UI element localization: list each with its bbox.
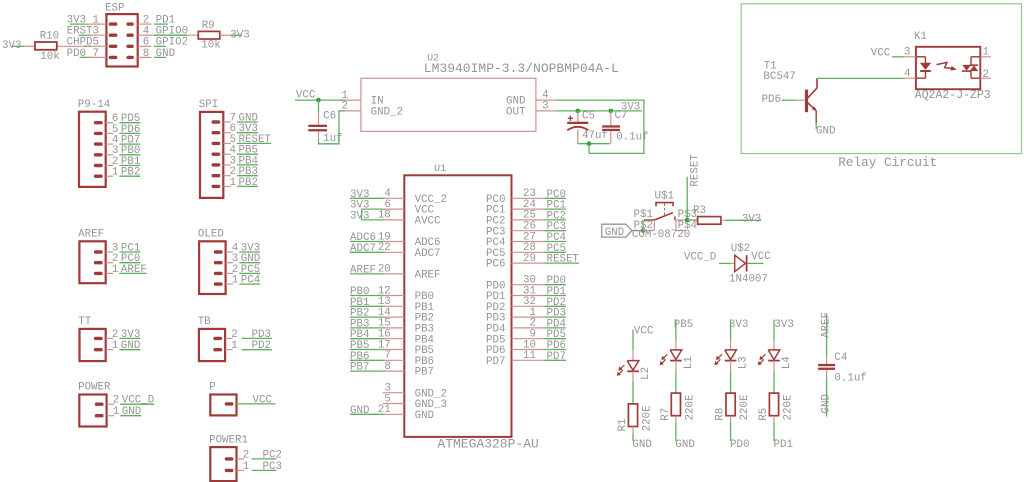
connector TT	[78, 316, 140, 361]
svg-text:3V3: 3V3	[230, 29, 249, 41]
net GND at C4	[820, 378, 832, 417]
svg-text:COM-08720: COM-08720	[632, 229, 690, 241]
svg-text:3V3: 3V3	[742, 214, 761, 226]
U1 pin 8 PB7	[350, 361, 434, 379]
K1 pin 4	[904, 77, 916, 79]
junction dot P$3/R3	[685, 218, 690, 223]
svg-text:POWER1: POWER1	[209, 434, 248, 446]
U1 pin 27 PC4	[486, 231, 566, 249]
U1 pin 7 PB6	[350, 350, 434, 368]
svg-text:2: 2	[112, 329, 118, 341]
svg-text:K1: K1	[914, 31, 927, 43]
K1 pin 1	[980, 56, 991, 58]
svg-text:11: 11	[523, 350, 536, 362]
svg-text:PB5: PB5	[674, 319, 693, 331]
wire anode L4	[773, 340, 775, 350]
svg-text:1: 1	[231, 340, 237, 352]
U1 pin 23 PC0	[486, 188, 566, 206]
wire P$2 to P$1	[642, 220, 644, 231]
U1 pin 26 PC3	[486, 221, 566, 239]
U1 pin 12 PB0	[350, 285, 434, 303]
svg-text:29: 29	[523, 253, 536, 265]
wire GND to switch	[632, 230, 643, 232]
svg-text:U$2: U$2	[731, 243, 750, 255]
relay circuit frame	[741, 4, 1021, 170]
wire L2 to R1	[632, 371, 634, 404]
U1 pin 4 VCC_2	[350, 188, 447, 206]
svg-text:1: 1	[983, 47, 989, 59]
net PB5 at LED column	[674, 319, 693, 340]
connector SPI	[199, 99, 272, 198]
svg-text:RESET: RESET	[690, 154, 702, 187]
wire R5 to PD1	[774, 416, 793, 451]
svg-text:GND: GND	[350, 405, 369, 417]
svg-text:PD7: PD7	[486, 356, 505, 368]
svg-text:3: 3	[904, 47, 910, 59]
microcontroller U1 ATMEGA328P-AU	[404, 164, 539, 451]
U1 pin 13 PB1	[350, 296, 434, 314]
svg-text:22: 22	[378, 242, 391, 254]
U1 pin 21 GND	[350, 404, 434, 422]
wire ESP pin6 GPIO2	[154, 45, 166, 47]
resistor R7	[660, 393, 696, 421]
U1 pin 30 PD0	[486, 275, 566, 293]
junction dot C5 top	[576, 109, 581, 114]
U1 pin 28 PC5	[486, 242, 566, 260]
svg-text:TT: TT	[78, 316, 91, 328]
svg-text:0.1uf: 0.1uf	[834, 372, 866, 384]
svg-text:VCC: VCC	[634, 326, 654, 338]
U1 pin 18 AVCC	[350, 210, 441, 228]
svg-text:1: 1	[113, 406, 119, 418]
svg-text:AREF: AREF	[350, 264, 376, 276]
svg-text:1: 1	[112, 340, 118, 352]
junction dot ground link	[587, 141, 592, 146]
svg-text:47uf: 47uf	[582, 130, 608, 142]
connector OLED	[198, 229, 260, 295]
diode U$2 1N4007	[684, 243, 771, 285]
svg-text:PB7: PB7	[415, 367, 434, 379]
svg-text:GND: GND	[632, 439, 651, 451]
U1 pin 24 PC1	[486, 199, 566, 217]
svg-text:AREF: AREF	[78, 229, 104, 241]
U1 pin 9 PD5	[486, 329, 566, 347]
svg-text:10k: 10k	[201, 39, 220, 51]
resistor R10	[25, 30, 85, 63]
svg-text:0.1uf: 0.1uf	[616, 131, 648, 143]
wire R8 to PD0	[730, 416, 749, 451]
svg-text:L2: L2	[640, 367, 652, 380]
svg-text:R9: R9	[202, 20, 215, 32]
svg-text:ATMEGA328P-AU: ATMEGA328P-AU	[437, 436, 538, 451]
U1 pin 17 PB5	[350, 339, 434, 357]
svg-text:1: 1	[112, 167, 118, 179]
wire T1 collector to K1 pin4	[817, 77, 904, 79]
net GND at T1 emitter	[816, 123, 835, 137]
U1 pin 29 PC6	[486, 253, 579, 271]
wire 3V3 stub ESP pin1	[70, 23, 88, 25]
U1 pin 3 GND_2	[383, 383, 447, 401]
svg-text:3V3: 3V3	[350, 210, 369, 222]
connector POWER1	[209, 434, 282, 481]
svg-text:1: 1	[112, 264, 118, 276]
svg-text:GND_2: GND_2	[371, 107, 403, 119]
svg-text:L3: L3	[738, 356, 750, 369]
ground flag GND	[602, 224, 632, 239]
svg-text:PD2: PD2	[252, 340, 271, 352]
U1 pin 31 PD1	[486, 285, 566, 303]
svg-text:L1: L1	[683, 356, 695, 369]
svg-text:AREF: AREF	[415, 270, 441, 282]
wire L3 to R8	[730, 361, 732, 394]
svg-text:2: 2	[983, 69, 989, 81]
svg-text:ESP: ESP	[105, 3, 124, 15]
svg-text:C7: C7	[615, 110, 628, 122]
svg-text:LM3940IMP-3.3/NOPBMP04A-L: LM3940IMP-3.3/NOPBMP04A-L	[424, 61, 619, 76]
svg-text:R10: R10	[40, 30, 59, 42]
svg-text:R3: R3	[693, 205, 706, 217]
pin 4 GND	[536, 99, 556, 101]
svg-text:RESET: RESET	[547, 254, 580, 266]
wire ESP pin2 PD1	[154, 23, 168, 25]
svg-text:220E: 220E	[739, 395, 751, 421]
U1 pin 5 GND_3	[383, 393, 447, 411]
svg-text:P: P	[209, 382, 215, 394]
voltage regulator U2 LM3940	[339, 54, 619, 132]
svg-text:VCC: VCC	[871, 47, 891, 59]
K1 triac	[970, 57, 972, 65]
U1 pin 11 PD7	[486, 350, 566, 368]
connector TB	[198, 316, 272, 361]
LED L1	[660, 350, 695, 369]
svg-text:PD1: PD1	[774, 439, 793, 451]
transistor T1 BC547	[763, 61, 817, 123]
svg-text:C6: C6	[323, 110, 336, 122]
wire L1 to R7	[675, 361, 677, 394]
svg-text:220E: 220E	[782, 395, 794, 421]
svg-text:VCC: VCC	[751, 251, 771, 263]
wire R10 to ESP pin5	[84, 45, 92, 47]
svg-text:220E: 220E	[641, 405, 653, 431]
svg-text:1: 1	[243, 461, 249, 473]
LED L2	[617, 361, 652, 380]
svg-text:PD6: PD6	[762, 94, 781, 106]
U1 pin 32 PD2	[486, 296, 566, 314]
capacitor C6 1uf	[308, 110, 342, 145]
wire VCC down to C6	[318, 100, 320, 112]
svg-text:GND: GND	[122, 406, 141, 418]
svg-text:AVCC: AVCC	[415, 216, 441, 228]
net VCC at U2 input	[295, 90, 345, 102]
pushbutton U$1 COM-08720	[632, 191, 697, 242]
svg-text:20: 20	[378, 264, 391, 276]
net 3V3 (left of R10)	[2, 40, 25, 52]
wire ESP pin4 GPIO0 to R9	[152, 34, 199, 36]
wire R1 to GND	[632, 427, 651, 451]
svg-text:PD3: PD3	[252, 329, 271, 341]
svg-text:R8: R8	[715, 408, 727, 421]
svg-text:1: 1	[230, 177, 236, 189]
svg-text:PB2: PB2	[121, 167, 140, 179]
svg-text:1N4007: 1N4007	[729, 274, 768, 286]
svg-text:U$1: U$1	[655, 191, 674, 203]
pin 3 OUT	[536, 110, 556, 112]
connector ESP	[67, 3, 188, 67]
wire PD0 stub ESP pin7	[80, 56, 91, 58]
svg-text:3V3: 3V3	[729, 319, 748, 331]
capacitor C7 0.1uf	[602, 110, 648, 144]
svg-text:10k: 10k	[40, 51, 59, 63]
wire anode L1	[675, 340, 677, 350]
svg-text:3V3: 3V3	[121, 329, 140, 341]
resistor R5	[758, 393, 794, 421]
svg-text:R1: R1	[617, 419, 629, 432]
svg-text:C5: C5	[582, 110, 595, 122]
svg-text:L4: L4	[781, 356, 793, 369]
svg-text:GND: GND	[415, 410, 434, 422]
svg-text:1: 1	[232, 275, 238, 287]
svg-text:3V3: 3V3	[774, 319, 793, 331]
K1 pin 2	[980, 77, 991, 79]
svg-text:PC4: PC4	[241, 275, 260, 287]
svg-text:Relay Circuit: Relay Circuit	[838, 155, 937, 170]
wire ESP pin8 GND	[154, 56, 166, 58]
capacitor C4 0.1uf	[818, 352, 867, 384]
net 3V3 at LED column	[729, 319, 748, 340]
svg-text:PC2: PC2	[263, 449, 282, 461]
LED L4	[758, 350, 793, 369]
wire L4 to R5	[773, 361, 775, 394]
svg-text:21: 21	[378, 404, 391, 416]
svg-text:SPI: SPI	[199, 99, 218, 111]
capacitor C5 47uf polarized	[567, 110, 608, 143]
resistor R8	[715, 393, 751, 421]
svg-text:8: 8	[384, 361, 390, 373]
net VCC at K1 pin3	[871, 47, 904, 59]
U1 pin 20 AREF	[350, 264, 441, 282]
U1 pin 1 PD3	[486, 307, 566, 325]
svg-text:2: 2	[243, 449, 249, 461]
connector P9-14	[78, 99, 141, 187]
wire R7 to GND	[675, 416, 694, 451]
relay K1 AQ2A2-J-ZP3	[904, 31, 991, 102]
U1 pin 25 PC2	[486, 210, 566, 228]
wire C6 to GND_2 pin	[319, 111, 346, 144]
U1 pin 2 PD4	[486, 318, 566, 336]
svg-text:2: 2	[113, 395, 119, 407]
junction dot C7 top	[609, 109, 614, 114]
svg-text:VCC: VCC	[296, 90, 316, 102]
net 3V3 at LED column	[774, 319, 794, 340]
svg-text:BC547: BC547	[763, 71, 795, 83]
svg-text:PC3: PC3	[263, 461, 282, 473]
svg-text:C4: C4	[834, 352, 847, 364]
U1 pin 15 PB3	[350, 318, 434, 336]
svg-text:AREF: AREF	[121, 264, 147, 276]
svg-text:R5: R5	[758, 408, 770, 421]
U1 pin 22 ADC7	[350, 242, 441, 260]
K1 opto arrow	[937, 62, 952, 68]
connector POWER	[78, 382, 154, 427]
wire ERST stub ESP pin3	[79, 34, 92, 36]
svg-text:GND: GND	[816, 125, 835, 137]
wire R3 to 3V3	[726, 214, 761, 226]
net PD6 at T1 base	[762, 94, 805, 106]
resistor R1	[617, 404, 653, 432]
svg-text:3: 3	[542, 100, 548, 112]
wire anode L3	[730, 340, 732, 350]
svg-text:GND: GND	[675, 439, 694, 451]
svg-text:PD0: PD0	[730, 439, 749, 451]
pin 2 GND_2	[339, 110, 361, 112]
svg-text:3V3: 3V3	[2, 40, 21, 52]
svg-text:PC6: PC6	[486, 259, 505, 271]
svg-text:AQ2A2-J-ZP3: AQ2A2-J-ZP3	[915, 89, 991, 102]
svg-text:GND: GND	[820, 394, 832, 413]
U1 pin 16 PB4	[350, 329, 434, 347]
svg-text:AREF: AREF	[820, 312, 832, 338]
connector P	[209, 382, 275, 416]
svg-text:TB: TB	[198, 316, 211, 328]
svg-text:PD0 7: PD0 7	[67, 48, 99, 60]
U1 pin 10 PD6	[486, 339, 566, 357]
svg-text:PD7: PD7	[547, 351, 566, 363]
svg-text:18: 18	[378, 210, 391, 222]
U1 pin 6 VCC	[350, 199, 435, 217]
svg-text:4: 4	[904, 68, 910, 80]
U1 pin 19 ADC6	[350, 231, 441, 249]
svg-text:GND: GND	[121, 340, 140, 352]
wire C5/C7 ground link	[578, 143, 610, 145]
svg-text:VCC_D: VCC_D	[122, 395, 154, 407]
U1 pin 14 PB2	[350, 307, 434, 325]
wire 3V3 bus at U1 left	[361, 209, 363, 220]
wire R9 to 3V3	[220, 29, 250, 41]
svg-text:OUT: OUT	[506, 107, 526, 119]
wire ground link down	[588, 144, 590, 154]
wire U2 OUT to 3V3	[556, 102, 642, 114]
svg-text:U1: U1	[434, 164, 446, 175]
wire anode L2	[632, 350, 634, 360]
svg-text:ADC7: ADC7	[350, 243, 376, 255]
LED L3	[714, 350, 749, 369]
svg-text:VCC_D: VCC_D	[684, 252, 716, 264]
svg-text:ADC7: ADC7	[415, 248, 441, 260]
wire U2 GND pin4 loop	[556, 100, 644, 153]
K1 internal LED	[916, 56, 926, 58]
svg-text:220E: 220E	[684, 395, 696, 421]
net RESET vertical wire	[687, 154, 701, 220]
junction dot VCC/C6	[316, 98, 321, 103]
K1 pin 3	[904, 56, 916, 58]
connector AREF	[78, 229, 147, 284]
resistor R9	[198, 20, 220, 52]
svg-text:PB7: PB7	[350, 362, 369, 374]
svg-text:VCC: VCC	[253, 394, 273, 406]
svg-text:GND: GND	[605, 227, 624, 239]
resistor R3	[687, 205, 728, 224]
pin 1 IN	[340, 99, 361, 101]
svg-text:2: 2	[231, 329, 237, 341]
svg-text:POWER: POWER	[78, 382, 111, 394]
svg-text:P9-14: P9-14	[78, 99, 110, 111]
svg-text:R7: R7	[660, 408, 672, 421]
svg-text:OLED: OLED	[198, 229, 224, 241]
junction dot at switch P$2	[641, 228, 646, 233]
net AREF at C4	[820, 312, 832, 356]
svg-text:PB2: PB2	[239, 177, 258, 189]
net VCC at LED column	[633, 326, 654, 351]
